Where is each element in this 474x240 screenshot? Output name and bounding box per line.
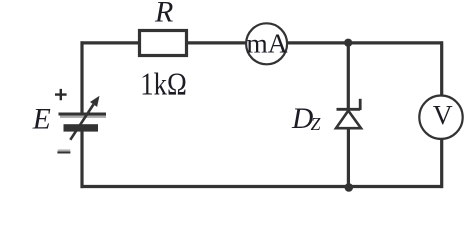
zener diode DZ cathode bend tick bbox=[359, 99, 362, 110]
svg-text:1kΩ: 1kΩ bbox=[140, 66, 187, 101]
voltmeter M2 circle bbox=[419, 96, 462, 139]
node A (top junction dot) bbox=[344, 39, 352, 47]
source E plus sign bbox=[55, 89, 67, 100]
svg-text:Z: Z bbox=[311, 114, 321, 134]
svg-text:mA: mA bbox=[246, 28, 287, 59]
svg-text:E: E bbox=[32, 103, 51, 135]
source E top plate gray shadow bbox=[60, 116, 106, 118]
svg-text:V: V bbox=[433, 99, 453, 130]
milliammeter M1 circle bbox=[246, 23, 287, 64]
source E minus sign bbox=[57, 151, 70, 153]
wire right vertical lower (voltmeter to bottom corner) bbox=[440, 140, 443, 189]
svg-text:R: R bbox=[154, 0, 173, 29]
source E adjustment arrow shaft bbox=[70, 104, 93, 139]
zener diode DZ triangle (anode, pointing up) bbox=[336, 111, 361, 129]
resistor R1 body bbox=[140, 31, 187, 56]
wire mA meter to top-right corner bbox=[288, 41, 443, 44]
node B (bottom junction dot) bbox=[345, 183, 354, 192]
wire zener branch upper bbox=[347, 43, 350, 109]
wire right vertical upper (top corner to voltmeter) bbox=[440, 41, 443, 95]
zener diode DZ cathode bar bbox=[337, 108, 361, 111]
wire resistor to mA meter bbox=[188, 41, 246, 44]
wire bottom horizontal bbox=[81, 185, 444, 188]
source E adjustment arrow head bbox=[90, 96, 100, 107]
wire top-left horizontal (E to resistor) bbox=[81, 41, 139, 44]
source E bottom thick bar bbox=[64, 124, 99, 131]
source E minus sign gray shadow bbox=[58, 149, 70, 151]
wire left vertical upper (top corner down to E plate) bbox=[80, 41, 83, 113]
source E top thin plate bbox=[59, 113, 107, 116]
wire zener branch lower bbox=[347, 129, 350, 187]
wire left vertical lower (E bar down to bottom wire) bbox=[80, 130, 83, 188]
